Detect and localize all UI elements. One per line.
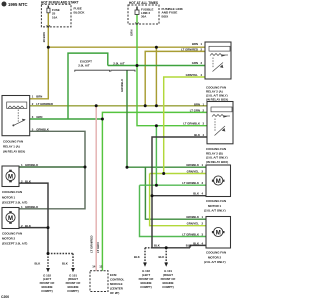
svg-text:GRN/YEL: GRN/YEL — [186, 73, 199, 77]
svg-text:BLK: BLK — [193, 241, 199, 245]
svg-text:BLK: BLK — [134, 255, 140, 259]
svg-text:HOT AT ALL TIMES: HOT AT ALL TIMES — [129, 1, 158, 5]
svg-text:BLK: BLK — [25, 179, 32, 183]
svg-text:RELAY 1 (A): RELAY 1 (A) — [3, 145, 20, 149]
svg-text:BLK: BLK — [186, 244, 192, 248]
svg-text:BLK: BLK — [25, 224, 32, 228]
svg-text:COOLING FAN: COOLING FAN — [206, 199, 226, 203]
svg-text:(CENTER: (CENTER — [110, 287, 124, 291]
svg-text:COMPT): COMPT) — [67, 289, 78, 293]
svg-text:(IN RELAY BOX): (IN RELAY BOX) — [206, 98, 228, 102]
svg-text:BRN: BRN — [194, 102, 200, 106]
svg-text:M: M — [8, 216, 13, 222]
svg-text:LT GRN: LT GRN — [190, 108, 200, 112]
svg-text:MOTOR 2: MOTOR 2 — [2, 237, 16, 241]
svg-text:M: M — [8, 174, 13, 180]
svg-text:M: M — [216, 230, 221, 236]
svg-text:M: M — [216, 179, 221, 185]
svg-text:COOLING FAN: COOLING FAN — [2, 231, 22, 235]
svg-text:2.0L A/T: 2.0L A/T — [113, 61, 125, 65]
svg-text:BLK: BLK — [62, 262, 68, 266]
svg-text:GRN: GRN — [130, 30, 134, 36]
svg-text:COOLING FAN: COOLING FAN — [3, 139, 23, 143]
svg-text:CONTROL: CONTROL — [110, 278, 125, 282]
svg-text:GRN: GRN — [192, 61, 198, 65]
svg-text:GRN/BLK: GRN/BLK — [186, 163, 199, 167]
svg-text:BRN: BRN — [192, 42, 198, 46]
svg-text:GRN/BLK: GRN/BLK — [25, 163, 39, 167]
svg-text:GRN: GRN — [36, 115, 42, 119]
svg-text:MOTOR 2: MOTOR 2 — [208, 255, 222, 259]
svg-text:2.0L A/T: 2.0L A/T — [78, 63, 90, 67]
svg-text:LT GRN/RED: LT GRN/RED — [36, 102, 53, 106]
svg-text:ECM: ECM — [110, 273, 117, 277]
svg-text:OF I/P): OF I/P) — [110, 291, 119, 295]
svg-text:1995 MTC: 1995 MTC — [8, 2, 28, 7]
svg-text:MOTOR 1: MOTOR 1 — [208, 204, 222, 208]
svg-text:(EXCEPT 2.0L A/T): (EXCEPT 2.0L A/T) — [2, 200, 27, 204]
svg-text:BRN: BRN — [36, 95, 42, 99]
svg-text:18 BRN: 18 BRN — [42, 32, 46, 42]
svg-text:COOLING FAN: COOLING FAN — [2, 190, 22, 194]
svg-text:LT GRN/RED: LT GRN/RED — [181, 48, 198, 52]
svg-text:GRN/YEL: GRN/YEL — [187, 222, 200, 226]
svg-text:BLK: BLK — [35, 262, 41, 266]
svg-text:COOLING FAN: COOLING FAN — [206, 251, 226, 255]
svg-text:(IN RELAY BOX): (IN RELAY BOX) — [3, 150, 25, 154]
svg-text:12: 12 — [99, 265, 103, 269]
svg-text:GRN/BLK: GRN/BLK — [186, 215, 199, 219]
svg-text:(2.0L A/T ONLY): (2.0L A/T ONLY) — [204, 260, 226, 264]
svg-text:LT GRN/BLK: LT GRN/BLK — [182, 233, 199, 237]
svg-text:LT GRN: LT GRN — [96, 242, 100, 253]
svg-text:COMPT): COMPT) — [162, 285, 173, 289]
svg-text:BLOCK: BLOCK — [74, 10, 86, 14]
svg-text:14: 14 — [92, 265, 96, 269]
svg-text:GRN/BLK: GRN/BLK — [25, 205, 39, 209]
svg-text:BLK: BLK — [154, 243, 160, 247]
svg-text:BLK: BLK — [193, 192, 199, 196]
svg-text:(IN RELAY BOX): (IN RELAY BOX) — [206, 160, 228, 164]
svg-text:LT GRN/RED: LT GRN/RED — [89, 236, 93, 253]
svg-text:GRN/BLK: GRN/BLK — [120, 78, 124, 92]
svg-text:(EXCEPT 2.0L A/T): (EXCEPT 2.0L A/T) — [2, 242, 27, 246]
svg-text:C200: C200 — [1, 295, 9, 299]
svg-text:LT GRN/BLK: LT GRN/BLK — [182, 181, 199, 185]
svg-text:10A: 10A — [52, 15, 58, 19]
svg-text:GRN/BLK: GRN/BLK — [36, 127, 49, 131]
svg-text:LT GRN/BLK: LT GRN/BLK — [183, 122, 200, 126]
svg-text:MODULE: MODULE — [110, 282, 123, 286]
svg-text:BOX: BOX — [162, 14, 170, 18]
svg-text:BLK: BLK — [194, 133, 200, 137]
svg-text:GRN/YEL: GRN/YEL — [187, 170, 200, 174]
svg-text:30A: 30A — [141, 15, 147, 19]
svg-text:HOT IN RUN AND START: HOT IN RUN AND START — [41, 1, 79, 5]
svg-text:BLK: BLK — [159, 255, 165, 259]
svg-text:(2.0L A/T ONLY): (2.0L A/T ONLY) — [204, 209, 226, 213]
svg-text:COMPT): COMPT) — [41, 289, 52, 293]
svg-text:MOTOR 1: MOTOR 1 — [2, 195, 16, 199]
svg-text:COMPT): COMPT) — [140, 285, 151, 289]
